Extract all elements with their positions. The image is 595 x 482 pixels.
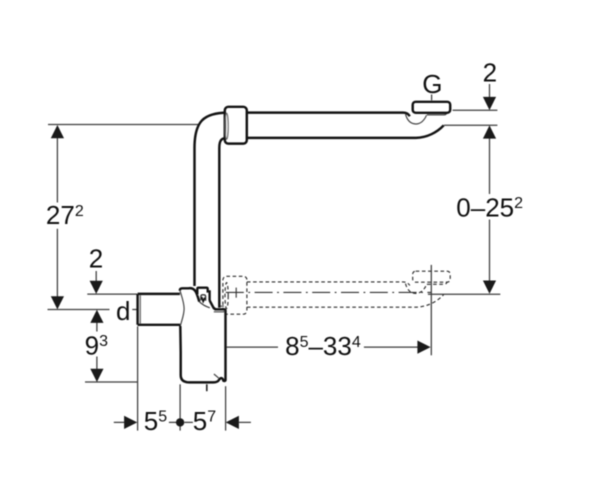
- dashed telescopic outlet pipe group: [223, 271, 450, 314]
- wire dim 27-2 top extension line: [48, 124, 200, 126]
- wire dim 27-2 shaft: [56, 138, 58, 297]
- dashed pipe bottom edge: [247, 295, 444, 308]
- wire dim 2-right shaft: [489, 84, 491, 98]
- wire extension line mid (x=180.1): [179, 384, 181, 430]
- dashed outlet flange: [413, 271, 451, 282]
- svg-text:G: G: [422, 69, 442, 99]
- svg-text:55: 55: [144, 406, 167, 436]
- leader line G: [431, 95, 433, 101]
- arrowhead down 2-right: [483, 97, 496, 110]
- arrowhead down 27-2: [51, 296, 64, 309]
- inlet pipe d: [138, 294, 181, 325]
- coupling nut dashed at trap outlet: [223, 276, 247, 314]
- center tick mark on centerline: [235, 288, 237, 298]
- wire dim d centerline reference: [48, 309, 138, 311]
- trap outlet step thin lines: [220, 304, 224, 306]
- flange lower lip: [427, 112, 447, 115]
- wire dim 9-3 shaft: [96, 323, 98, 370]
- wire extension line right (x=225.6): [225, 386, 227, 430]
- trap body inner funnel edge thin: [199, 302, 210, 308]
- outlet flange G: [413, 102, 451, 113]
- dashed cup arc under flange: [406, 284, 427, 294]
- svg-text:57: 57: [193, 406, 216, 436]
- arrowhead up 0-25: [483, 125, 496, 138]
- clip V notch: [202, 297, 205, 301]
- wire dim 9-3 bottom reference: [85, 381, 137, 383]
- wire right reference line flange bottom: [453, 109, 498, 111]
- top horizontal pipe edges: [247, 113, 444, 138]
- wire extension line left (x=137.6): [137, 326, 139, 430]
- trap body outline thick: [180, 288, 226, 382]
- node dot between 5-5 and 5-7: [176, 418, 184, 426]
- wire dim 8.5-33.4 line: [227, 346, 418, 348]
- wire bottom dimension line: [114, 421, 251, 423]
- drain tick below trap: [206, 384, 208, 391]
- trap clip bump: [197, 288, 209, 301]
- dashed flange lip: [427, 282, 447, 285]
- wire dim 2-left shaft: [95, 271, 97, 281]
- wire extension line outlet flange center (x=431.3): [430, 265, 432, 355]
- centerline dash-dot of outlet: [226, 291, 431, 293]
- arrowhead down 2-left: [90, 281, 103, 294]
- arrowhead right 5-5: [124, 416, 137, 429]
- pipe end ring dashed: [225, 283, 228, 309]
- svg-text:272: 272: [46, 200, 84, 230]
- elbow coupling nut: [225, 107, 247, 144]
- vertical pipe and elbow outline: [195, 113, 229, 308]
- svg-text:2: 2: [89, 244, 103, 274]
- trap outlet lip below ledge: [214, 310, 225, 311]
- wire dim 0-25 shaft: [489, 139, 491, 281]
- cup arc under flange: [406, 114, 427, 124]
- wire right bottom reference line: [428, 293, 500, 295]
- trap cup joint diagonal (bottom right notch): [214, 374, 219, 378]
- arrowhead left 5-7: [226, 416, 239, 429]
- pipe end ring in nut: [225, 113, 228, 139]
- svg-text:93: 93: [85, 330, 108, 360]
- funnel spout steep edge: [210, 300, 216, 309]
- arrowhead down 0-25: [483, 281, 496, 294]
- svg-text:2: 2: [483, 57, 497, 87]
- wire dim 2-left reference line: [87, 293, 137, 295]
- arrowhead up 9-3: [90, 310, 103, 323]
- svg-text:0–252: 0–252: [456, 192, 523, 222]
- trap body left edge thin (crossing inlet pipe): [180, 290, 184, 326]
- trap body fill: [180, 288, 226, 383]
- svg-text:85–334: 85–334: [285, 331, 361, 361]
- arrowhead down 9-3: [90, 369, 103, 382]
- arrowhead right 8.5-33.4: [417, 341, 430, 354]
- inlet pipe wall line: [139, 295, 141, 323]
- svg-text:d: d: [116, 296, 130, 326]
- clip inner arch: [201, 295, 206, 301]
- arrowhead up 27-2: [51, 125, 64, 138]
- wire right reference line pipe outlet: [444, 124, 497, 126]
- dashed pipe top edge: [247, 282, 410, 286]
